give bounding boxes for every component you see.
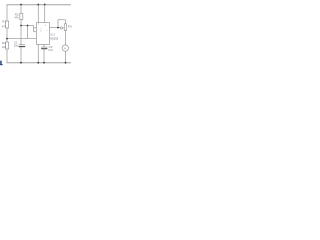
svg-text:10k: 10k: [2, 45, 7, 49]
svg-text:47k: 47k: [2, 25, 7, 29]
svg-text:NE555: NE555: [50, 36, 58, 40]
svg-text:0u1: 0u1: [48, 48, 53, 52]
svg-text:R4: R4: [2, 41, 6, 45]
svg-text:R1: R1: [2, 20, 6, 24]
svg-text:RY1: RY1: [68, 27, 72, 29]
svg-text:47k: 47k: [14, 15, 19, 19]
svg-text:10u: 10u: [14, 44, 19, 48]
svg-text:IC1: IC1: [51, 33, 56, 37]
svg-text:A: A: [64, 46, 66, 50]
